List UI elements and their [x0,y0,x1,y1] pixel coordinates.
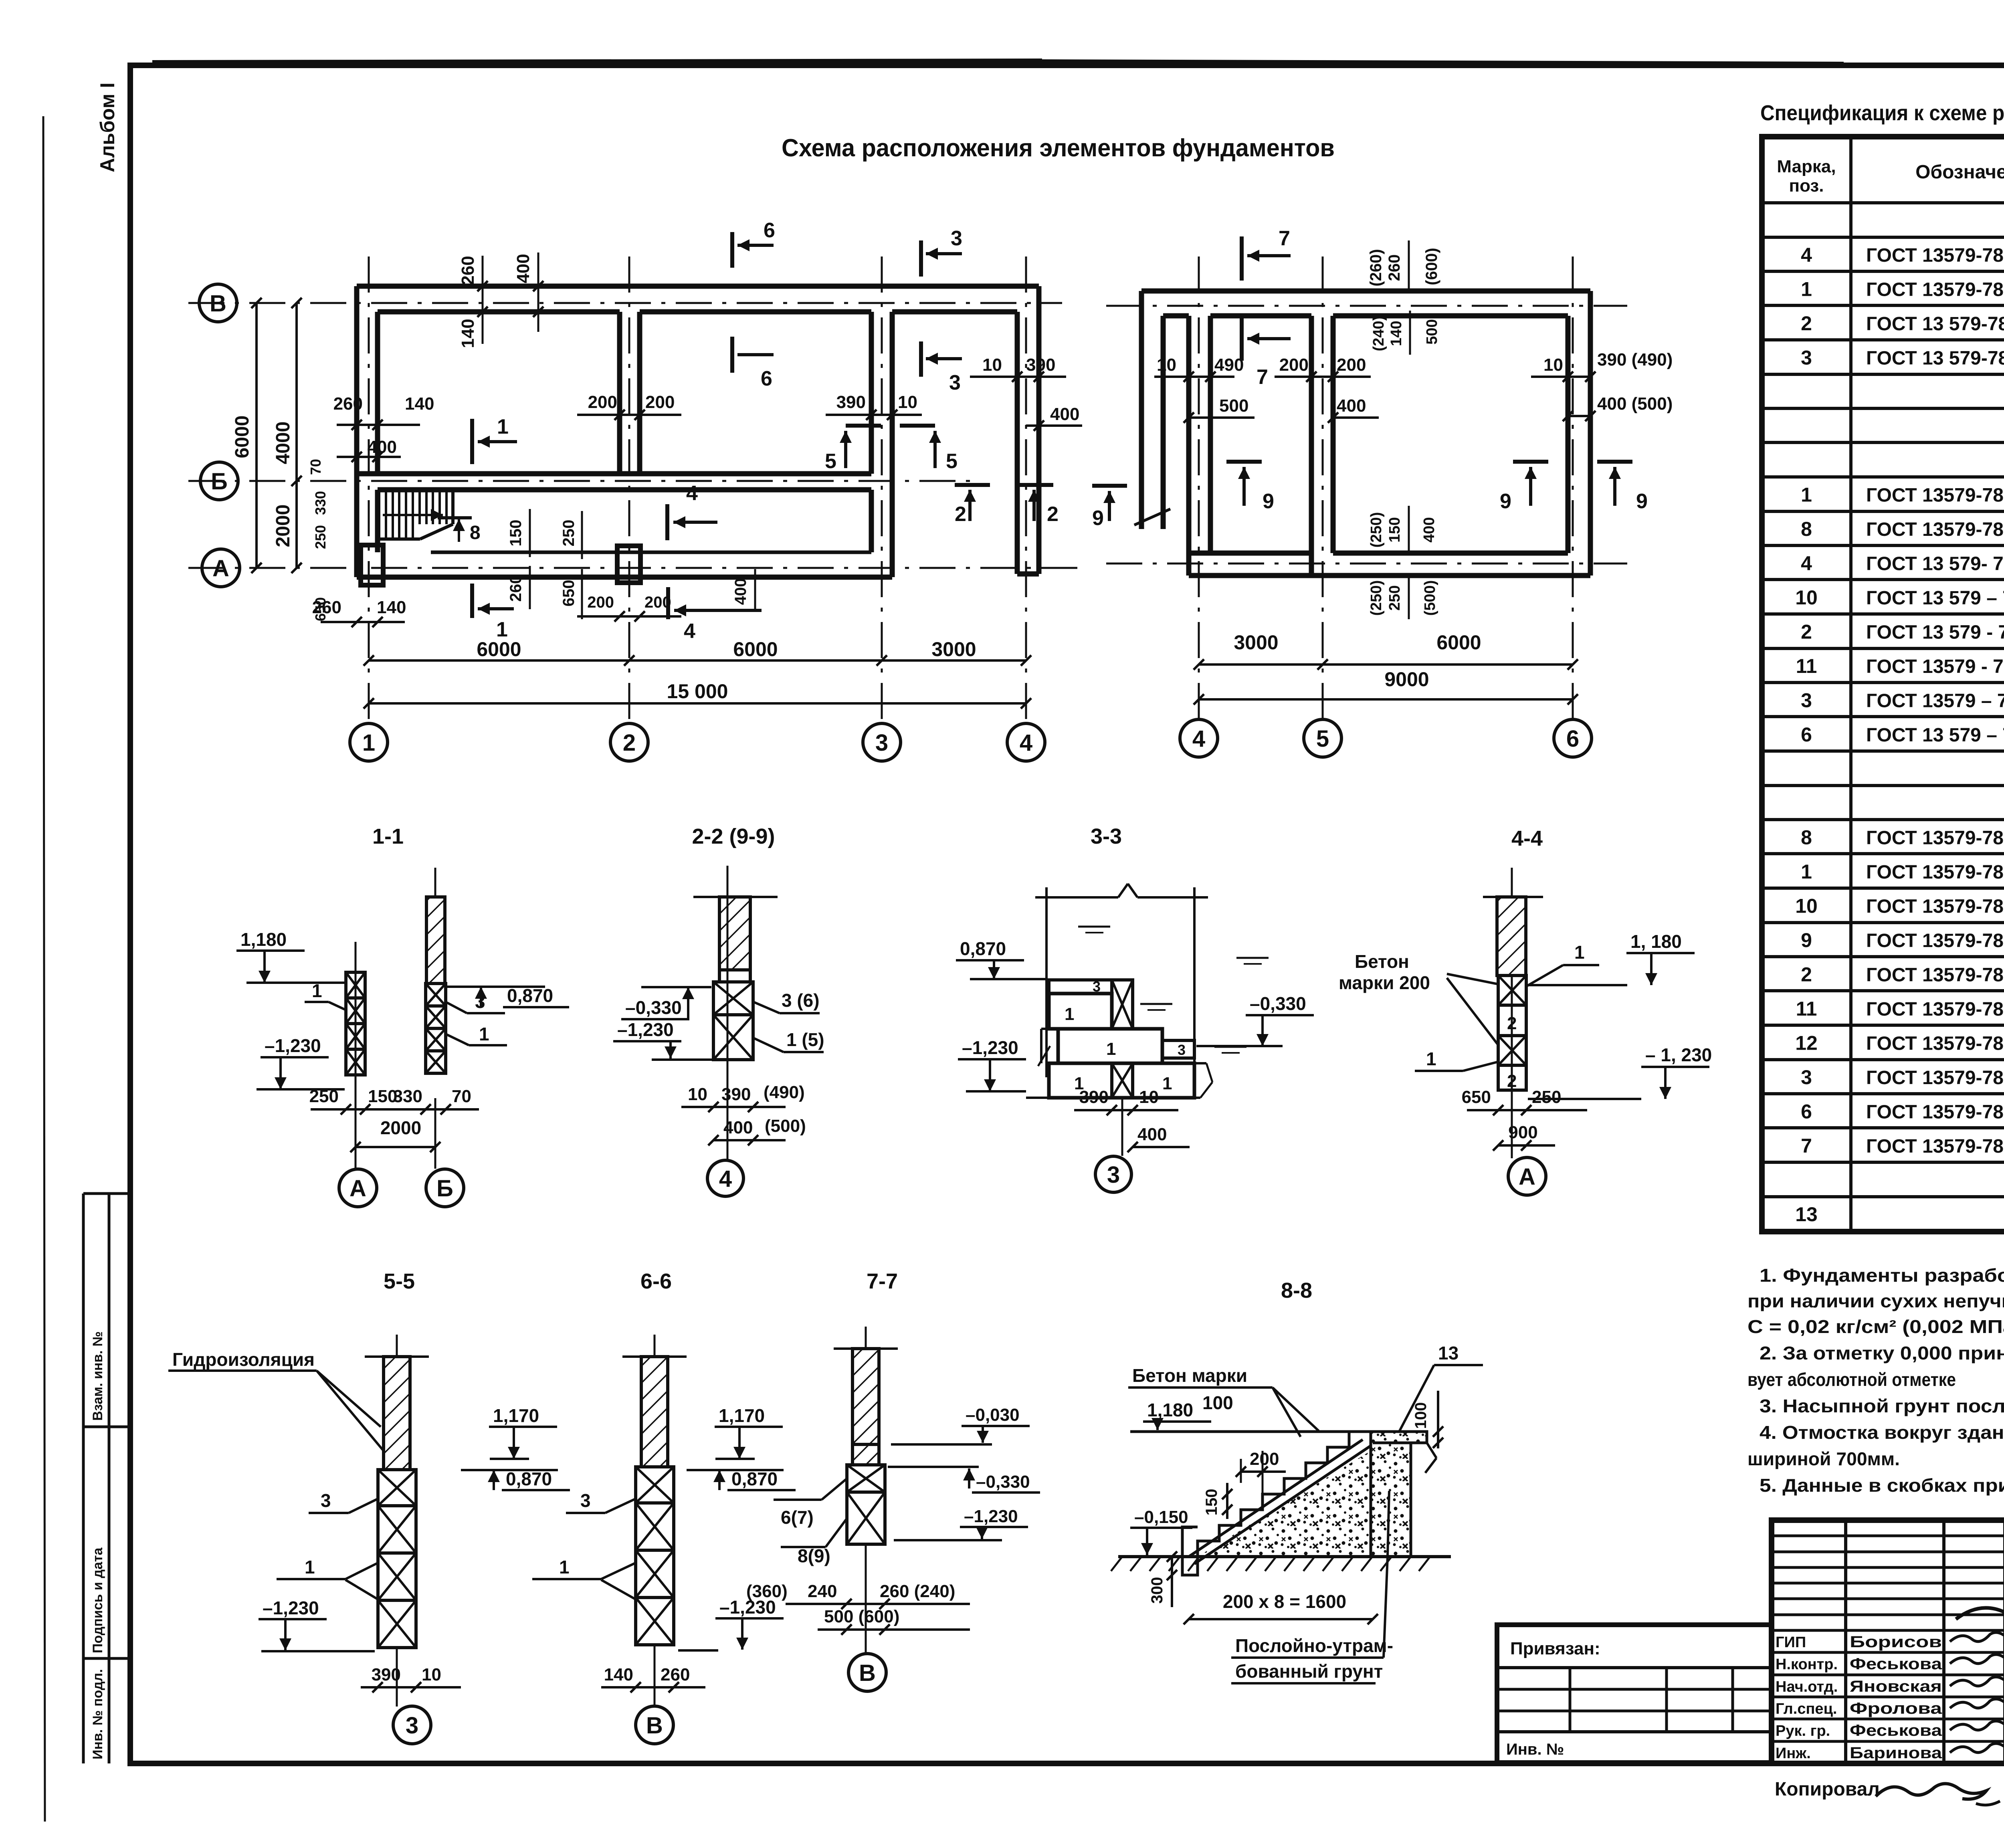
spec table column lines [1849,137,1852,1232]
plan1 Б wall upper line [357,471,871,477]
svg-text:250: 250 [1532,1087,1561,1107]
8-8 broken edge right [1427,1443,1436,1458]
7-7 axis circle В [865,1544,867,1654]
plan2 dim row 3000 6000 [1199,663,1573,666]
plan1 left wall inner [375,312,380,474]
plan2 left wall break [1134,509,1170,525]
4-4 leader 1 top [1527,965,1563,986]
svg-text:10: 10 [1157,355,1176,375]
table row 14: ФБС 9.5.6-Т [1762,681,2004,684]
svg-text:А: А [1519,1164,1535,1190]
1-1 column Б thin axis above [434,868,436,897]
section marker 3 top [919,240,923,277]
svg-text:650: 650 [560,580,578,607]
6-6 foundation blocks [636,1467,674,1503]
svg-text:Послойно-утрам-: Послойно-утрам- [1235,1635,1393,1656]
svg-text:10: 10 [1795,586,1818,609]
plan1 wall axis2 right line [637,312,642,474]
table row 26: ФБС 12.4.3-Т [1762,1092,2004,1095]
plan1 axis line 2 vertical [628,256,630,721]
svg-text:С = 0,02 кг/см² (0,002 МПа), Е: С = 0,02 кг/см² (0,002 МПа), Е = 150кг/с… [1747,1316,2004,1337]
3-3 bottom edge [1026,1097,1200,1099]
7-7 lower hatch band divider [853,1443,879,1446]
6-6 wall hatch column [641,1357,668,1467]
svg-text:2: 2 [1507,1014,1517,1033]
svg-text:500 (600): 500 (600) [824,1607,899,1626]
7-7 foundation blocks [847,1465,885,1492]
plan1 axis circle А [202,549,240,587]
svg-text:3: 3 [951,227,962,250]
svg-text:–1,230: –1,230 [962,1037,1018,1058]
svg-text:1: 1 [1162,1074,1172,1093]
svg-text:ГОСТ 13579-78: ГОСТ 13579-78 [1866,1067,2004,1089]
svg-text:4: 4 [1192,726,1205,752]
svg-text:(500): (500) [1422,580,1438,616]
svg-text:400: 400 [1337,396,1366,416]
svg-text:0,870: 0,870 [506,1468,552,1489]
svg-text:А: А [349,1175,366,1202]
svg-text:6: 6 [761,367,772,390]
plan1 axis line 1 vertical [368,256,370,721]
plan1 axis circle 2 [610,723,648,761]
svg-text:(250): (250) [1368,580,1385,616]
plan2 right wall inner [1566,316,1571,553]
svg-text:260: 260 [1386,254,1403,281]
plan2 left wall outer [1139,291,1144,529]
svg-text:(490): (490) [764,1083,805,1102]
svg-text:390: 390 [721,1085,751,1104]
svg-text:200: 200 [645,392,675,412]
svg-text:ГОСТ 13 579 - 78: ГОСТ 13 579 - 78 [1866,622,2004,643]
svg-text:11: 11 [1796,998,1817,1020]
svg-text:Копировал: Копировал [1775,1779,1880,1800]
svg-text:3: 3 [406,1713,418,1739]
svg-text:1: 1 [362,730,375,756]
svg-text:240: 240 [808,1581,837,1601]
svg-text:вует абсолютной отметке: вует абсолютной отметке [1747,1369,1956,1390]
svg-text:(600): (600) [1423,248,1440,285]
svg-text:2: 2 [955,503,966,526]
svg-text:6000: 6000 [733,638,778,660]
svg-text:2000: 2000 [380,1117,421,1138]
svg-text:Гл.спец.: Гл.спец. [1776,1701,1837,1717]
plan1 top wall inner line [378,309,620,315]
4-4 blocks with 2 labels [1498,976,1526,1005]
svg-text:70: 70 [307,459,324,475]
svg-text:4. Отмостка вокруг здания а: 4. Отмостка вокруг здания асфальтовая по… [1760,1422,2004,1443]
plan1 corridor inner bottom line [431,551,871,554]
4-4 wall hatch [1497,897,1526,976]
section marker 6 inner [730,337,734,373]
svg-text:13: 13 [1438,1343,1459,1363]
8-8 right concrete block [1371,1432,1427,1557]
plan2 left wall inner [1161,316,1166,529]
frame top thick scan band [152,63,1042,64]
svg-text:6000: 6000 [232,416,253,458]
svg-text:3 (6): 3 (6) [782,990,820,1011]
svg-text:Марка,: Марка, [1777,157,1836,176]
svg-text:Взам. инв. №: Взам. инв. № [90,1331,105,1421]
plan2 section marker 9 far left [1092,484,1127,488]
svg-text:ГОСТ 13579-78: ГОСТ 13579-78 [1866,965,2004,986]
plan1 axis line 3 vertical [881,256,883,721]
4-4 leader 1 bottom left [1463,1062,1497,1071]
svg-text:Гидроизоляция: Гидроизоляция [172,1349,315,1370]
plan2 axis 6 vertical [1572,256,1574,719]
svg-text:2-2 (9-9): 2-2 (9-9) [692,824,775,848]
svg-text:8: 8 [1801,826,1812,849]
5-5 leader 3 [349,1499,378,1513]
svg-text:8-8: 8-8 [1281,1278,1312,1303]
svg-text:300: 300 [1148,1577,1166,1604]
svg-text:5: 5 [825,450,836,473]
left margin column box [82,1194,85,1763]
plan2 dim row 9000 [1199,698,1573,701]
svg-text:11: 11 [1796,655,1817,677]
1-1 column Б blocks [426,984,446,1006]
marker 8 arrow up [458,519,460,542]
svg-text:Инж.: Инж. [1776,1745,1811,1762]
8-8 leaders from beton label [1273,1388,1319,1431]
svg-text:5. Данные в скобках приведен: 5. Данные в скобках приведены для расчет… [1760,1475,2004,1496]
svg-text:260: 260 [333,394,363,414]
cell divider podpis/inv [83,1657,130,1660]
plan2 wall axis5 left [1309,316,1314,576]
svg-text:4: 4 [684,620,695,643]
svg-text:3: 3 [321,1490,331,1511]
svg-text:3: 3 [1801,347,1812,369]
svg-text:0,870: 0,870 [731,1468,778,1489]
plan1 top wall outer line [357,284,1039,289]
svg-text:330: 330 [312,491,329,515]
table row 10: ФБС 24.5.6-Т [1762,544,2004,547]
svg-text:400: 400 [732,578,749,605]
table row 25: ФБС 9.6.6-Т [1762,1058,2004,1061]
plan2 section marker 9 left [1226,460,1262,464]
svg-text:250: 250 [309,1087,339,1106]
svg-text:200: 200 [644,594,671,611]
2-2 top cap line [693,896,778,898]
section marker 5 left [846,424,881,428]
section marker 1 bottom [470,584,474,618]
plan1 pier at axis1 bottom [361,545,383,585]
svg-text:390 (490): 390 (490) [1597,350,1673,370]
svg-text:1: 1 [559,1557,570,1577]
4-4 top cap line [1483,896,1543,898]
table row 24: ФБС 9 5.6-Т [1762,1024,2004,1027]
svg-text:6000: 6000 [477,638,521,660]
svg-text:6000: 6000 [1436,631,1481,654]
plan1 axis circle В [199,284,237,322]
svg-text:Б: Б [211,469,228,495]
svg-text:–1,230: –1,230 [265,1035,321,1056]
svg-text:ГОСТ 13 579-78: ГОСТ 13 579-78 [1866,348,2004,369]
svg-text:3: 3 [1801,1066,1812,1089]
plan2 wall axis4 right [1208,316,1213,553]
2-2 axis circle 4 [707,1160,743,1196]
svg-text:–0,030: –0,030 [966,1405,1020,1425]
svg-text:Привязан:: Привязан: [1510,1639,1600,1658]
svg-text:390: 390 [1026,355,1055,375]
svg-text:1: 1 [497,415,509,438]
svg-text:8: 8 [470,522,481,543]
plan1 axis line А horizontal [188,567,1082,569]
svg-text:ГОСТ 13579-78: ГОСТ 13579-78 [1866,1033,2004,1054]
svg-text:150: 150 [1386,517,1403,542]
spec table header row line [1762,201,2004,204]
plan1 wall axis3 right line [890,312,895,577]
svg-text:500: 500 [1219,396,1248,416]
3-3 boundary verticals [1045,887,1048,1077]
plan2 top wall outer [1141,289,1590,294]
plan1 axis circle 1 [350,723,388,761]
1-1 column A blocks [346,972,365,998]
svg-text:140: 140 [377,598,406,617]
svg-text:6-6: 6-6 [640,1269,672,1293]
section marker 4 corridor [665,504,669,540]
section marker 5 right [900,424,935,428]
svg-text:4-4: 4-4 [1511,826,1543,850]
1-1 axis circle А [355,1118,357,1169]
table row 18: для t°= 40° [1762,818,2004,821]
plan1 stair outline [378,489,453,492]
6-6 leader 3 [605,1499,635,1513]
svg-text:ГОСТ 13579-78: ГОСТ 13579-78 [1866,519,2004,540]
8-8 leader from label [1384,1557,1388,1658]
3-3 axis circle 3 [1121,1098,1123,1156]
svg-text:3-3: 3-3 [1091,824,1122,848]
svg-text:– 1, 230: – 1, 230 [1645,1044,1712,1065]
svg-text:0,870: 0,870 [507,985,553,1006]
7-7 elevation -0,330 right [888,1466,979,1468]
3-3 long block 1 row3 [1058,1029,1162,1063]
big signature scribble [1956,1596,2004,1619]
svg-text:Обозначение: Обозначение [1915,162,2004,183]
svg-text:2. За отметку 0,000 принят у: 2. За отметку 0,000 принят уровень чисто… [1760,1343,2004,1363]
svg-text:200: 200 [1337,355,1366,375]
svg-text:5: 5 [1316,726,1329,752]
svg-text:3: 3 [580,1490,591,1511]
svg-text:В: В [210,291,226,317]
svg-text:ГОСТ 13579-78: ГОСТ 13579-78 [1866,896,2004,917]
table row 5: ФБС 12.4.3-Т [1762,373,2004,376]
section marker 2 left [955,483,990,487]
svg-text:900: 900 [1508,1123,1537,1142]
3-3 water marks [1078,926,1110,928]
svg-text:6(7): 6(7) [781,1507,814,1528]
svg-text:200: 200 [1279,355,1309,375]
svg-text:200: 200 [1250,1449,1279,1469]
section marker 1 room1 [470,419,474,464]
plan1 axis line 4 vertical [1025,256,1027,721]
3-3 top edge with break [1035,896,1118,899]
title block sig column verticals [1844,1520,1847,1763]
svg-text:2: 2 [1801,312,1812,335]
svg-text:шириной 700мм.: шириной 700мм. [1747,1448,1900,1469]
svg-text:1,180: 1,180 [240,929,287,950]
svg-text:13: 13 [1795,1203,1818,1226]
svg-text:4: 4 [719,1166,732,1192]
svg-text:А: А [212,555,229,582]
svg-text:100: 100 [1412,1402,1430,1429]
svg-text:при наличии сухих непучинис: при наличии сухих непучинистых грунтов, … [1747,1291,2004,1311]
svg-text:9000: 9000 [1384,668,1429,691]
svg-text:ГОСТ 13579-78: ГОСТ 13579-78 [1866,485,2004,506]
plan2 axis circle 5 [1304,719,1341,757]
svg-text:Баринова: Баринова [1850,1744,1942,1762]
section marker 2 right [1018,483,1053,487]
8-8 stipple fill under stairs [1198,1451,1371,1557]
svg-text:1: 1 [312,980,322,1001]
svg-text:6: 6 [1801,723,1812,746]
section marker 4 bottom [666,587,670,619]
svg-text:3: 3 [475,991,485,1012]
2-2 blocks [713,982,753,1015]
title block outer [1772,1520,2004,1763]
svg-text:ГОСТ 13 579 – 78: ГОСТ 13 579 – 78 [1866,725,2004,746]
plan1 wall axis3 left line [869,312,874,474]
table row 6: Бетон марки 200 [1762,407,2004,410]
svg-text:3: 3 [875,730,888,756]
privyazan box [1497,1625,1772,1763]
svg-text:1,170: 1,170 [719,1405,765,1426]
svg-text:3: 3 [1801,689,1812,712]
table row 11: ФБС 12.4.6-Т [1762,578,2004,581]
cell divider vzam/podpis [83,1426,130,1428]
svg-text:–1,230: –1,230 [617,1019,674,1040]
svg-text:–1,230: –1,230 [964,1507,1018,1526]
svg-text:10: 10 [1139,1087,1159,1107]
svg-text:4: 4 [1801,552,1812,575]
svg-text:200 х 8 = 1600: 200 х 8 = 1600 [1223,1591,1346,1612]
svg-text:ГОСТ 13579-78: ГОСТ 13579-78 [1866,1102,2004,1123]
svg-text:400: 400 [723,1118,753,1137]
table row 4: ФБС 9.4.6-Т [1762,338,2004,341]
svg-text:260: 260 [661,1665,690,1684]
svg-text:390: 390 [836,392,866,412]
table row 9: ФБС 24.4.6.-Т [1762,510,2004,513]
4-4 leader beton to column [1447,974,1497,984]
svg-text:Феськова: Феськова [1850,1655,1942,1673]
svg-text:–0,330: –0,330 [625,997,682,1018]
svg-text:ГОСТ 13 579- 78: ГОСТ 13 579- 78 [1866,553,2004,575]
svg-text:8(9): 8(9) [798,1545,830,1566]
svg-text:250: 250 [1386,585,1403,610]
svg-text:3. Насыпной грунт послойно: 3. Насыпной грунт послойно утрамбовать с… [1760,1396,2004,1416]
table row 20: ФБС 24.4.6-Т [1762,887,2004,890]
svg-text:1: 1 [1106,1039,1116,1059]
svg-text:3: 3 [1178,1042,1186,1058]
7-7 leader 6(7) [822,1479,846,1500]
svg-text:2: 2 [1507,1071,1517,1091]
table row 17: Бетон марки 200 [1762,784,2004,787]
svg-text:7: 7 [1279,227,1290,250]
1-1 leader 1 right column [446,1034,469,1045]
svg-text:(500): (500) [765,1116,806,1136]
plan2 top axis horizontal [1106,305,1627,307]
plan1 right wall axis4 inner [1015,312,1020,574]
svg-text:–0,330: –0,330 [976,1472,1030,1492]
title block upper thin rows [1772,1535,2004,1537]
8-8 stair slab lines [1189,1440,1363,1557]
svg-text:1,180: 1,180 [1147,1400,1193,1420]
svg-text:В: В [859,1660,876,1686]
svg-text:(250): (250) [1368,512,1385,548]
svg-text:–1,230: –1,230 [263,1598,319,1618]
8-8 left foot [1182,1527,1198,1575]
3-3 slab 3 top [1049,980,1112,994]
8-8 top level line [1130,1430,1427,1433]
svg-text:Н.контр.: Н.контр. [1776,1656,1838,1673]
svg-text:–0,150: –0,150 [1134,1507,1188,1527]
svg-text:1: 1 [1801,278,1812,301]
svg-text:ГОСТ 13579-78: ГОСТ 13579-78 [1866,279,2004,301]
svg-text:Подпись и дата: Подпись и дата [90,1547,105,1653]
svg-text:6: 6 [1566,726,1579,752]
svg-text:9: 9 [1263,490,1274,513]
svg-text:(260): (260) [1367,249,1385,286]
svg-text:0,870: 0,870 [960,938,1006,959]
4-4 axis thin [1511,868,1513,1158]
svg-text:10: 10 [1795,895,1818,917]
1-1 leader 1 left column [329,1002,346,1010]
svg-text:5-5: 5-5 [384,1269,415,1293]
svg-text:150: 150 [507,520,525,547]
svg-text:10: 10 [422,1665,441,1684]
3-3 block 1 row2 [1049,994,1112,1029]
svg-text:400 (500): 400 (500) [1597,394,1673,414]
svg-text:1: 1 [305,1557,315,1577]
table row 23: ФБС 9.4.6-Т [1762,989,2004,992]
plan2 bottom wall outer [1189,573,1590,578]
svg-text:ГОСТ 13579-78: ГОСТ 13579-78 [1866,828,2004,849]
5-5 leader 1 [345,1563,378,1579]
svg-text:140: 140 [405,394,434,414]
svg-text:Феськова: Феськова [1850,1722,1942,1739]
svg-text:ГОСТ 13579-78: ГОСТ 13579-78 [1866,930,2004,951]
plan2 axis circle 4 [1180,719,1218,757]
plan1 pier at axis2 bottom [617,546,640,583]
1-1 axis circle Б [434,1098,436,1169]
svg-text:12: 12 [1795,1032,1818,1054]
plan1 left wall outer [354,286,360,577]
svg-text:10: 10 [898,392,917,412]
table row 3: ФБС 24.4.6-Т [1762,304,2004,307]
svg-text:4: 4 [686,482,698,505]
svg-text:150: 150 [1203,1489,1220,1516]
plan1 right wall axis4 outer [1036,286,1042,574]
8-8 right block top slab lines [1373,1442,1411,1444]
svg-text:9: 9 [1636,490,1648,513]
svg-text:В: В [646,1713,663,1739]
svg-text:1, 180: 1, 180 [1630,931,1682,952]
plan2 right wall outer [1588,291,1593,576]
5-5 wall hatch column [384,1357,410,1470]
svg-text:330: 330 [393,1087,422,1106]
plan1 stair treads [378,491,380,539]
svg-text:490: 490 [1214,355,1244,375]
plan1 axis circle 3 [863,723,901,761]
plan2 top wall inner [1163,313,1189,319]
3-3 bottom row right break [1194,1062,1206,1064]
svg-text:260: 260 [507,575,525,602]
svg-text:400: 400 [1137,1125,1167,1144]
svg-text:1: 1 [1574,942,1585,963]
table row 15: ФБС 12.4.3-Т [1762,715,2004,718]
privyazan verticals [1569,1668,1572,1732]
svg-text:Б: Б [436,1175,453,1202]
plan2 section marker 9 far right [1597,460,1632,464]
